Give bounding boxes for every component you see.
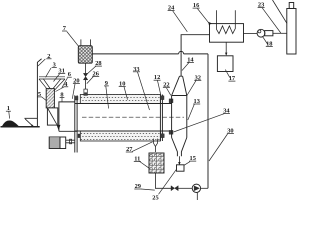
feed head box 8 — [59, 102, 77, 131]
rear seal bottom — [160, 134, 164, 138]
leader 5 — [42, 97, 47, 101]
label 31 — [58, 68, 65, 75]
discharge housing inlet seal top — [169, 99, 173, 103]
exhaust riser pipe — [181, 35, 209, 76]
bucket elevator 2 — [37, 59, 41, 127]
label 13 — [193, 98, 200, 105]
shaft coupling — [70, 139, 72, 144]
rear seal top 22 — [160, 96, 164, 100]
leader 30 — [209, 134, 228, 161]
label 29 — [134, 183, 141, 190]
leader 17 — [225, 70, 230, 78]
drum rear end plate — [160, 95, 162, 142]
hot air recycle line — [92, 51, 208, 54]
label 30 — [227, 128, 234, 135]
label 4 — [63, 81, 68, 88]
leader 15 — [184, 162, 190, 166]
drive shaft — [66, 140, 75, 143]
label 27 — [126, 146, 134, 153]
leader 32 — [187, 81, 196, 96]
label 6 — [67, 71, 72, 78]
label 34 — [223, 108, 231, 115]
supply pipe to drum — [84, 63, 86, 89]
product receiver 15 — [177, 165, 185, 171]
label 14 — [187, 56, 195, 63]
inner drum wall lines 10 — [75, 104, 172, 132]
label 26 — [92, 71, 100, 78]
leader 28 — [88, 66, 96, 74]
leader 25 — [159, 169, 177, 195]
hopper inner liner 31 — [43, 79, 61, 89]
leader 14 — [182, 63, 189, 71]
label 20 — [73, 78, 80, 85]
label 5 — [37, 91, 42, 98]
label 12 — [154, 74, 161, 81]
drum outer shell top band 9 — [80, 95, 160, 104]
cone outlet arrow — [178, 156, 180, 162]
leader 20 — [72, 84, 75, 99]
label 2 — [46, 53, 51, 60]
leader 23 — [262, 8, 281, 33]
label 33 — [133, 66, 140, 73]
discharge housing 13 — [172, 96, 187, 138]
leader 18 — [262, 36, 267, 44]
leader 3 — [46, 68, 52, 77]
leader 33 — [138, 72, 150, 110]
leader 7 — [67, 32, 79, 47]
label 1 — [6, 105, 11, 112]
leader 1 — [8, 112, 11, 119]
label 11 — [134, 155, 141, 162]
leader 16 — [198, 9, 210, 24]
discharge housing inlet seal bottom — [169, 130, 173, 134]
leader 27 — [132, 142, 153, 152]
condensate drop pipe — [225, 42, 227, 54]
leader 26 — [87, 77, 94, 84]
label 3 — [52, 61, 57, 68]
label 25 — [152, 195, 158, 202]
feed chute into elevator boot — [24, 118, 37, 126]
leader 34 — [174, 114, 225, 132]
label 28 — [95, 60, 102, 67]
ground line — [1, 126, 40, 128]
heat exchanger 16 — [210, 24, 244, 43]
label 24 — [168, 5, 176, 12]
circulation pump 19 — [192, 184, 200, 192]
leader 8 — [61, 98, 63, 102]
gearbox — [60, 137, 66, 149]
leader 12 — [158, 81, 161, 95]
exhaust hood 14 — [172, 76, 187, 95]
leader 4 — [56, 87, 65, 92]
drum solids outlet 27 — [154, 139, 158, 147]
control valve 28 — [83, 73, 87, 79]
drum centerline — [82, 116, 184, 118]
leader arrowhead 16 — [208, 22, 211, 26]
collector drop pipe 29 — [155, 173, 171, 188]
chute discharge arrow — [57, 125, 61, 130]
front seal bottom — [78, 134, 82, 138]
label 9 — [104, 80, 109, 87]
recovery column 23 — [287, 9, 296, 55]
leader 22 — [167, 88, 171, 95]
leader 31 — [54, 74, 60, 82]
leader 9 — [106, 86, 109, 109]
label 7 — [62, 25, 67, 32]
label 23 — [258, 2, 265, 9]
raw material pile 1 — [2, 120, 19, 126]
screw feeder 5 — [46, 89, 54, 108]
label 16 — [193, 2, 201, 9]
inclined chute 4 — [47, 108, 57, 125]
inlet nozzle 26 — [84, 89, 87, 95]
pump suction stub — [196, 192, 198, 200]
drum front end plate / flange — [75, 95, 77, 152]
svg-text:25: 25 — [152, 195, 158, 201]
hopper 3 funnel — [39, 77, 65, 90]
label 15 — [189, 155, 196, 162]
leader 13 — [188, 104, 195, 120]
drive motor — [49, 137, 60, 149]
label 22 — [163, 81, 170, 88]
label 17 — [228, 75, 236, 82]
leader 24 — [173, 11, 188, 32]
front seal top 20 — [75, 96, 78, 100]
label 10 — [119, 81, 126, 88]
condensate tank 17 — [217, 56, 233, 72]
label 32 — [194, 74, 201, 81]
label 8 — [60, 92, 65, 99]
drum outer shell bottom band — [80, 131, 160, 141]
corner leader line — [273, 0, 287, 23]
slurry valve 25 — [171, 186, 178, 191]
recycle downcomer 30 — [207, 54, 209, 188]
leader 10 — [124, 87, 128, 100]
label 18 — [266, 41, 273, 48]
heated air supply box 7 — [81, 39, 91, 45]
fines collector 11 — [149, 153, 164, 173]
leader 29 — [141, 189, 155, 190]
leader 6 — [62, 78, 68, 88]
leader 11 — [140, 161, 150, 168]
leader 2 — [38, 59, 45, 66]
vapor pump 18 — [244, 32, 258, 34]
discharge cone — [172, 138, 187, 157]
